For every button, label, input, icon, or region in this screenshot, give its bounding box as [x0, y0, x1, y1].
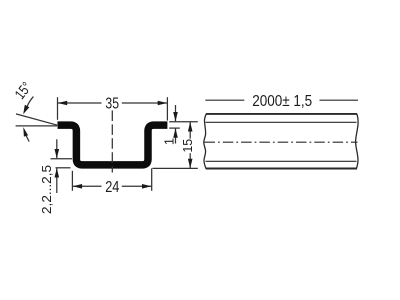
dim 24 right arrow — [142, 184, 152, 189]
15deg lower arrowhead (below horizontal line) — [23, 127, 28, 137]
svg-text:24: 24 — [105, 179, 119, 196]
dim 1: bottom extension line at flange bottom — [169, 127, 180, 129]
dim 2,2...2,5: lower extension line — [56, 167, 71, 169]
side view upper inner line — [206, 121, 357, 123]
dim 15: bottom extension line at floor bottom — [153, 167, 198, 169]
side view right break (wavy) edge — [356, 114, 359, 168]
dim 1 / 15: shared top extension line at flange top — [169, 121, 198, 123]
dim 24: right extension line — [151, 168, 153, 191]
dim 1 upper arrow (points down) — [173, 112, 178, 122]
15deg arc arrowhead (on angled line) — [23, 105, 29, 115]
svg-text:1: 1 — [161, 138, 176, 145]
dim 35 right arrow — [158, 101, 168, 106]
dim 24: dimension line segments — [72, 185, 101, 187]
side view bottom edge (thick) — [206, 168, 357, 170]
dim 24 left arrow — [73, 184, 83, 189]
dim 2000: dimension line segments — [205, 99, 244, 101]
dim 1: dimension line upper/lower segments — [175, 105, 177, 121]
side view dash-dot centerline — [205, 141, 358, 143]
vertical dashed centerline of cross-section — [111, 111, 113, 173]
dim 15 top arrow (points up) — [188, 122, 193, 132]
dim 2,2...2,5: dimension line upper/lower segments — [56, 139, 58, 158]
15deg: arc from text to angled line — [27, 97, 33, 107]
arrowheads — [23, 101, 192, 189]
dim 2,2...2,5: upper extension line — [51, 158, 73, 160]
dim 2,2...2,5 lower arrow (points up) — [55, 168, 60, 178]
dim 2,2...2,5 upper arrow (points down) — [55, 149, 60, 159]
svg-text:15: 15 — [181, 139, 195, 153]
15deg lower arrowhead tail — [26, 136, 29, 142]
dim 35: right extension line — [166, 97, 168, 120]
dim 35: dimension line segments — [58, 102, 102, 104]
svg-text:2,2...2,5: 2,2...2,5 — [39, 165, 54, 214]
dim 15: dimension line segments — [189, 122, 191, 139]
side view top edge (thick) — [206, 113, 357, 115]
svg-text:35: 35 — [105, 95, 119, 112]
dim 35: left extension line — [57, 97, 59, 120]
svg-text:2000± 1,5: 2000± 1,5 — [252, 93, 312, 110]
15deg: angled line — [16, 114, 57, 125]
rail cross-section profile (thick black hat profile) — [58, 125, 168, 165]
dim 1 lower arrow (points up) — [173, 128, 178, 138]
dim 24: left extension line — [71, 171, 73, 191]
15deg: horizontal reference line — [16, 125, 57, 127]
side view lower inner line — [206, 160, 357, 162]
side view left break (wavy) edge — [204, 114, 207, 169]
dim 35 left arrow — [58, 101, 67, 106]
dim 15 bottom arrow (points down) — [188, 159, 193, 169]
